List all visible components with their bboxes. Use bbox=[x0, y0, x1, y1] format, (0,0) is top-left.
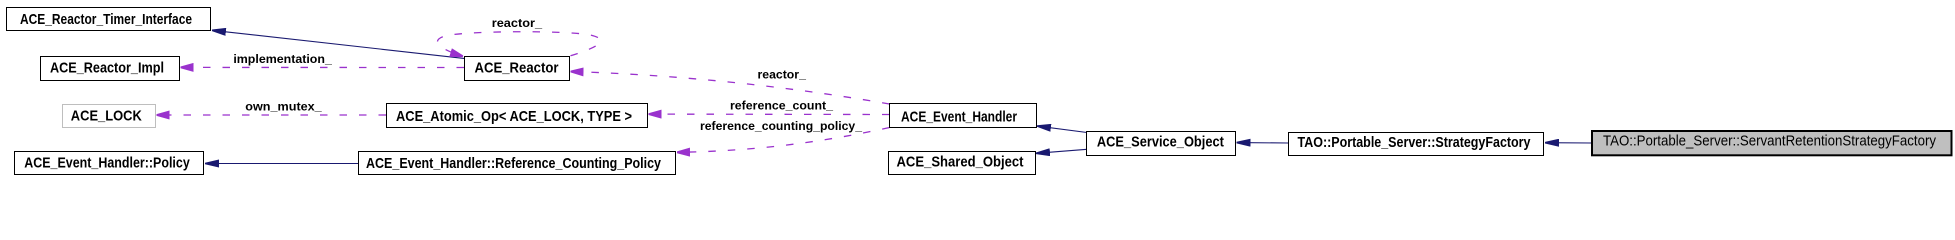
svg-text:implementation_: implementation_ bbox=[233, 52, 332, 66]
svg-text:reference_count_: reference_count_ bbox=[730, 99, 833, 113]
wire: dashed edge implementation_ from ACE_Reactor to ACE_Reactor_Impl bbox=[181, 66, 465, 68]
svg-text:ACE_Reactor_Timer_Interface: ACE_Reactor_Timer_Interface bbox=[20, 11, 192, 28]
svg-text:ACE_Event_Handler::Reference_C: ACE_Event_Handler::Reference_Counting_Po… bbox=[366, 155, 662, 172]
node ACE_Event_Handler bbox=[890, 104, 1037, 128]
svg-text:ACE_Service_Object: ACE_Service_Object bbox=[1097, 134, 1224, 151]
wire: inheritance edge ServantRetentionStrategyFactory to StrategyFactory bbox=[1545, 142, 1592, 144]
svg-text:reactor_: reactor_ bbox=[758, 68, 807, 82]
svg-text:ACE_Reactor_Impl: ACE_Reactor_Impl bbox=[50, 59, 164, 76]
svg-text:ACE_Shared_Object: ACE_Shared_Object bbox=[897, 153, 1024, 170]
node ACE_LOCK (template parameter, grey border) bbox=[63, 105, 156, 128]
svg-text:ACE_Event_Handler::Policy: ACE_Event_Handler::Policy bbox=[24, 155, 190, 172]
svg-text:own_mutex_: own_mutex_ bbox=[245, 100, 322, 114]
wire: inheritance edge ACE_Service_Object to ACE_Event_Handler bbox=[1037, 126, 1087, 133]
wire: dashed self-loop reactor_ on ACE_Reactor bbox=[437, 32, 600, 57]
node ACE_Reactor_Impl bbox=[41, 57, 180, 81]
wire: dashed edge reactor_ from ACE_Event_Handler to ACE_Reactor bbox=[571, 72, 890, 105]
svg-text:reference_counting_policy_: reference_counting_policy_ bbox=[700, 119, 862, 133]
svg-text:ACE_Atomic_Op< ACE_LOCK, TYPE: ACE_Atomic_Op< ACE_LOCK, TYPE > bbox=[396, 108, 632, 125]
svg-text:ACE_Reactor: ACE_Reactor bbox=[475, 59, 559, 76]
wire: dashed edge reference_counting_policy_ from ACE_Event_Handler to Reference_Counting_Policy bbox=[677, 128, 890, 153]
node ACE_Shared_Object bbox=[889, 152, 1036, 175]
node ACE_Reactor_Timer_Interface bbox=[7, 8, 211, 31]
wire: inheritance edge Reference_Counting_Policy to ACE_Event_Handler::Policy bbox=[205, 163, 358, 165]
node ACE_Event_Handler::Reference_Counting_Policy bbox=[359, 152, 676, 175]
svg-text:ACE_Event_Handler: ACE_Event_Handler bbox=[901, 108, 1017, 125]
node ACE_Atomic_Op< ACE_LOCK, TYPE > bbox=[387, 104, 648, 128]
wire: inheritance edge ACE_Service_Object to ACE_Shared_Object bbox=[1036, 149, 1087, 153]
svg-text:TAO::Portable_Server::ServantR: TAO::Portable_Server::ServantRetentionSt… bbox=[1603, 133, 1936, 150]
svg-text:reactor_: reactor_ bbox=[492, 16, 543, 30]
node ACE_Service_Object bbox=[1087, 132, 1236, 156]
wire: dashed edge reference_count_ from ACE_Event_Handler to ACE_Atomic_Op bbox=[649, 113, 890, 115]
svg-text:ACE_LOCK: ACE_LOCK bbox=[71, 107, 142, 124]
wire: dashed edge own_mutex_ from ACE_Atomic_Op to ACE_LOCK bbox=[157, 114, 387, 116]
wire: inheritance edge ACE_Reactor to ACE_Reactor_Timer_Interface bbox=[212, 30, 464, 58]
node ACE_Event_Handler::Policy bbox=[15, 152, 204, 175]
wire: inheritance edge StrategyFactory to ACE_Service_Object bbox=[1237, 142, 1289, 144]
svg-text:TAO::Portable_Server::Strategy: TAO::Portable_Server::StrategyFactory bbox=[1298, 134, 1532, 151]
node TAO::Portable_Server::StrategyFactory bbox=[1289, 133, 1544, 156]
node TAO::Portable_Server::ServantRetentionStrategyFactory (current, grey fill) bbox=[1592, 131, 1952, 155]
node ACE_Reactor bbox=[465, 57, 570, 81]
